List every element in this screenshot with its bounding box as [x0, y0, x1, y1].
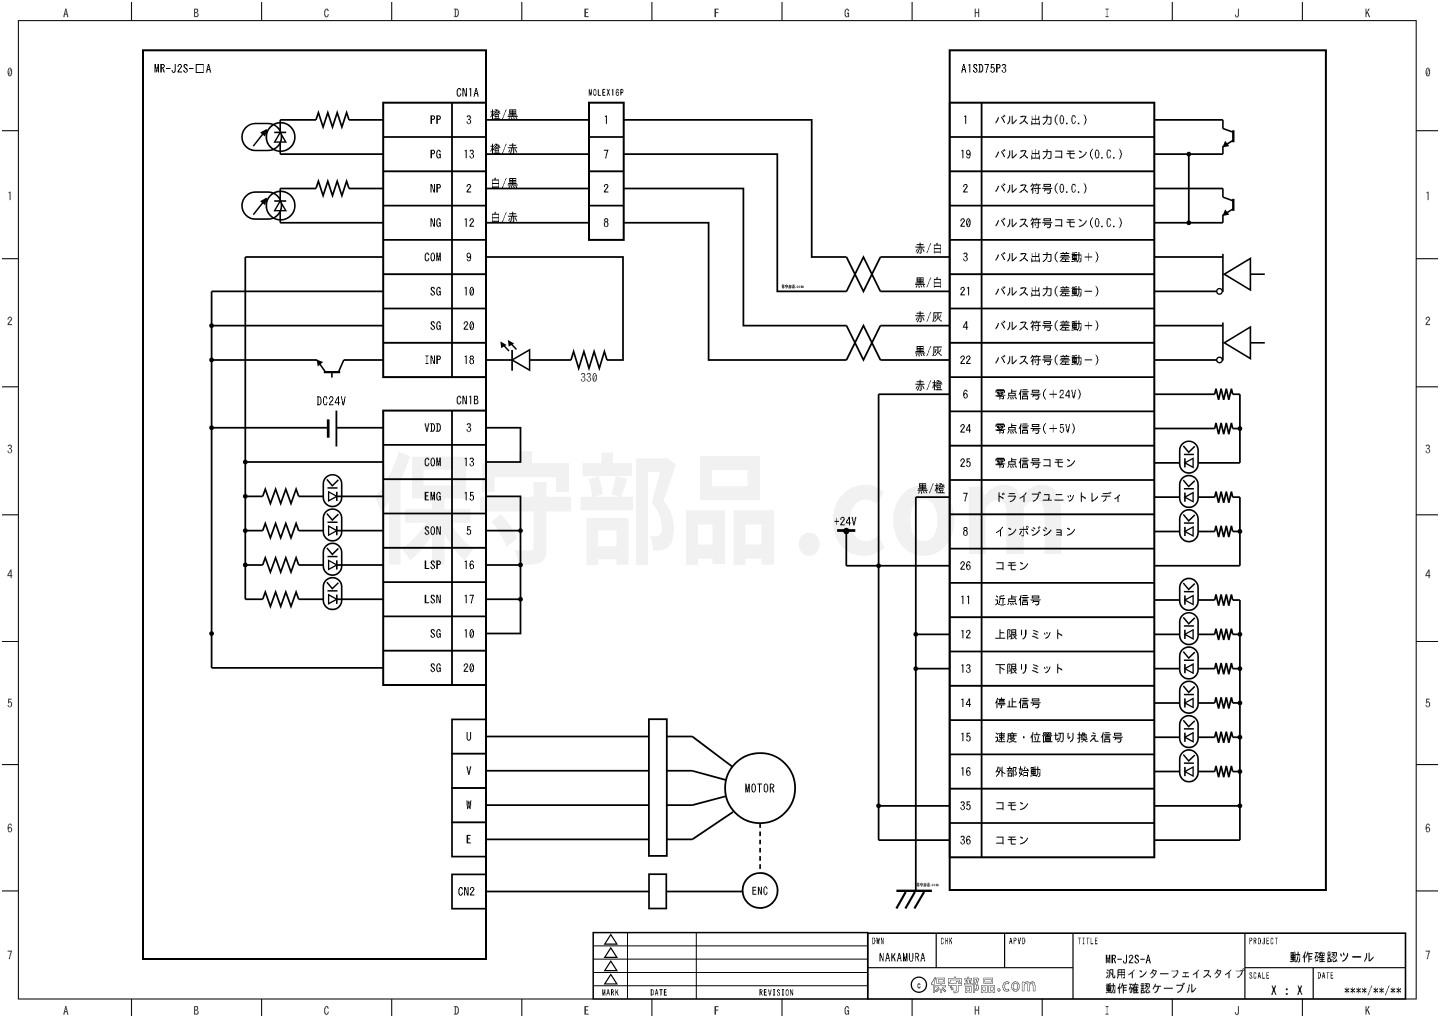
- wire route 4: [624, 223, 847, 360]
- battery DC24V: [212, 396, 384, 446]
- wire PP row: [280, 119, 383, 121]
- wire SG20 stub: [212, 325, 384, 327]
- LED D14 row16 chain: [1154, 750, 1240, 782]
- label 黒/灰: [915, 346, 942, 357]
- resistor R1: [316, 113, 349, 127]
- wire NG row: [280, 222, 383, 224]
- wire V: [486, 770, 649, 772]
- wire row7 to bus D: [916, 496, 950, 498]
- encoder ENC: [743, 823, 778, 908]
- terminal U: [452, 719, 486, 753]
- logo: [911, 977, 1035, 994]
- label 白/赤: [492, 212, 517, 223]
- label 赤/灰: [915, 311, 942, 322]
- wire EMG-SG10 link right: [486, 496, 523, 633]
- watermark com: [799, 485, 1061, 556]
- wire LSN row: [245, 598, 383, 600]
- link rows 7-8-26: [1154, 497, 1242, 566]
- wire common link 19-20: [1186, 152, 1191, 225]
- twisted pair 1: [847, 257, 950, 291]
- wire NP row: [280, 187, 383, 189]
- connector CN1B: [383, 396, 486, 685]
- wire row6 to bus C: [879, 393, 950, 395]
- power +24V: [835, 517, 857, 566]
- wire E: [486, 838, 649, 840]
- mini watermark 2: [917, 883, 939, 887]
- revision table: [593, 933, 868, 999]
- wire route 1: [624, 120, 847, 257]
- line receiver U3: [1154, 322, 1265, 362]
- bus B vertical (SG): [209, 291, 214, 667]
- wire VDD-COM13 link right: [486, 428, 521, 462]
- wire MOLEX pin 7 run: [486, 153, 589, 155]
- wire W: [486, 804, 649, 806]
- link rows 6-24-25: [1238, 394, 1243, 463]
- label 黒/橙: [918, 483, 945, 494]
- wire row24 resistor chain: [1154, 423, 1240, 434]
- wire SG20 CN1B stub: [212, 667, 384, 669]
- ground: [896, 891, 932, 909]
- resistor R7 330: [571, 352, 607, 382]
- resistor R5 (LSP): [263, 558, 299, 572]
- bus A vertical (COM): [243, 257, 248, 599]
- label 黒/白: [915, 277, 941, 288]
- label 赤/白: [915, 243, 941, 254]
- wire PG row: [280, 153, 383, 155]
- LED D10 row12 chain: [1154, 613, 1240, 645]
- wire CN2: [486, 891, 743, 893]
- wire COM9 left to bus A: [245, 256, 383, 258]
- label 橙/黒: [491, 109, 518, 120]
- resistor R3 (EMG): [263, 489, 299, 503]
- transistor Q3 (sign O.C.): [1154, 188, 1233, 222]
- link rows 11-16-35-36: [1154, 600, 1242, 840]
- wire row36 stub: [879, 839, 950, 841]
- power cable connector: [649, 719, 667, 856]
- mini watermark 1: [782, 285, 804, 289]
- wire row13 stub: [916, 668, 950, 670]
- wire route 2: [624, 154, 847, 291]
- LED D3 (LSP): [323, 543, 341, 575]
- wire row12 stub: [916, 633, 950, 635]
- encoder cable connector: [649, 874, 666, 908]
- twisted pair 2: [847, 326, 950, 360]
- resistor R4 (SON): [263, 523, 299, 537]
- bus C vertical (+24V common): [876, 394, 881, 840]
- watermark: [375, 451, 774, 565]
- A1SD75P3 terminal table: [950, 103, 1155, 858]
- wire MOLEX pin 8 run: [486, 222, 589, 224]
- wire row6 resistor chain: [1154, 389, 1240, 400]
- title block: [868, 933, 1406, 999]
- label 赤/橙: [915, 380, 942, 391]
- photocoupler PC1: [242, 120, 295, 154]
- LED D4 (LSN): [323, 578, 341, 610]
- bus D vertical (black/orange): [913, 497, 918, 891]
- line receiver U2: [1154, 254, 1265, 294]
- terminal W: [452, 788, 486, 822]
- resistor R6 (LSN): [263, 592, 299, 606]
- wire SG10 left to bus B: [212, 290, 384, 292]
- wire SON row: [245, 530, 383, 532]
- label 白/黒: [492, 178, 518, 189]
- motor M1: [667, 737, 795, 840]
- wire U: [486, 736, 649, 738]
- LED D12 row14 chain: [1154, 681, 1240, 713]
- terminal E: [452, 822, 486, 856]
- wire row26 stub: [846, 565, 949, 567]
- terminal CN2: [452, 874, 486, 908]
- connector CN1A: [383, 88, 486, 377]
- wire COM9 to LED branch: [486, 257, 623, 360]
- LED D13 row15 chain: [1154, 716, 1240, 748]
- wire MOLEX pin 1 run: [486, 119, 589, 121]
- wire COM13 stub: [245, 461, 383, 463]
- LED D2 (SON): [323, 509, 341, 541]
- terminal V: [452, 754, 486, 788]
- LED D1 (EMG): [323, 475, 341, 507]
- wire route 3: [624, 188, 847, 325]
- LED D5 indicator: [486, 341, 571, 371]
- wire EMG row: [245, 495, 383, 497]
- wire MOLEX pin 2 run: [486, 187, 589, 189]
- transistor Q1 on INP line: [212, 360, 384, 378]
- positioning module A1SD75P3 box: [950, 50, 1326, 890]
- connector MOLEX16P: [589, 89, 624, 240]
- LED D7 row7 chain: [1154, 476, 1240, 508]
- resistor R2: [316, 181, 349, 195]
- LED D11 row13 chain: [1154, 647, 1240, 679]
- LED D6 row25: [1154, 441, 1240, 473]
- servo amplifier MR-J2S-A box: [143, 50, 486, 959]
- wire row35 stub: [879, 805, 950, 807]
- wire LSP row: [245, 564, 383, 566]
- transistor Q2 (pulse O.C.): [1154, 120, 1233, 154]
- LED D9 row11 chain: [1154, 578, 1240, 610]
- LED D8 row8 chain: [1154, 510, 1240, 542]
- label 橙/赤: [491, 143, 518, 154]
- photocoupler PC2: [242, 188, 295, 222]
